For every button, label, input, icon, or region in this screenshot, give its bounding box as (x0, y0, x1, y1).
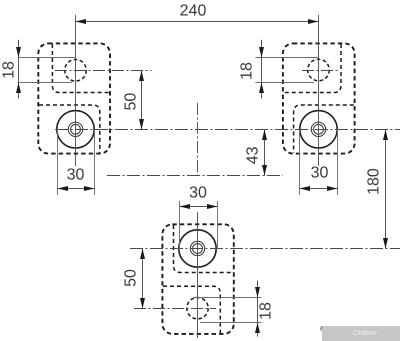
dimension 43: up arrow (262, 130, 267, 141)
bottom mounting hole middle ring (190, 241, 204, 255)
left bracket vertical centerline (75, 15, 77, 166)
dimension 50 top: dimension line (141, 71, 143, 130)
dimension 30 bottom: extension lines (180, 201, 218, 249)
bottom bracket vertical centerline (197, 212, 199, 338)
dimension 18 bottom: bottom arrow (255, 323, 260, 334)
left mounting hole outer circle (57, 111, 94, 148)
right slot hole centerline (302, 70, 339, 72)
bottom slot hole (dashed circle) (187, 298, 208, 319)
watermark logo dot (320, 326, 325, 331)
left slot hole (dashed circle) (65, 60, 87, 82)
bottom mounting hole outer circle (179, 230, 216, 267)
dimension 180: dimension line (385, 130, 387, 249)
dimension 240 right arrow (308, 19, 319, 24)
watermark bar (322, 326, 400, 341)
right console upper inner plate (284, 44, 341, 93)
intermediate horizontal centerline (43 reference) (107, 175, 283, 177)
dimension 18 left: bottom arrow (16, 83, 21, 94)
bottom console lower inner plate (163, 286, 220, 333)
dimension 180: down arrow (383, 238, 388, 249)
svg-text:18: 18 (1, 61, 18, 79)
dimension 18 bottom: top arrow (255, 287, 260, 298)
dimension 30 bottom: right arrow (207, 204, 218, 209)
bottom slot hole centerline (134, 308, 216, 310)
dimension 18 left: top arrow (16, 47, 21, 58)
main horizontal centerline through top mounting holes (55, 129, 400, 131)
dimension 30 bottom: left arrow (180, 204, 191, 209)
dimension 18 left: extension lines (18, 58, 76, 83)
dimension 18 right: dimension line (261, 40, 263, 99)
dimension 18 bottom: extension lines (193, 298, 262, 323)
svg-text:180: 180 (366, 168, 383, 195)
right slot hole (dashed circle) (308, 59, 330, 81)
dimension 30 left: dimension line (58, 188, 95, 190)
dimension 240 line (76, 21, 319, 23)
dimension 18 bottom: dimension line (257, 281, 259, 337)
dimension 30 bottom: dimension line (180, 206, 218, 208)
left slot hole centerline (55, 70, 151, 72)
dimension 180: up arrow (383, 130, 388, 141)
dimension 50 bottom: down arrow (140, 298, 145, 309)
dimension 50 bottom: up arrow (140, 249, 145, 260)
dimension 30 right: dimension line (300, 188, 338, 190)
dimension 18 left: dimension line (18, 40, 20, 99)
svg-text:18: 18 (258, 302, 275, 320)
svg-text:50: 50 (123, 93, 140, 111)
dimension 30 right: left arrow (300, 186, 311, 191)
svg-text:18: 18 (239, 62, 256, 80)
bottom mounting hole inner ring (193, 244, 203, 254)
right bracket vertical centerline (318, 15, 320, 166)
left mounting hole inner ring (71, 124, 81, 134)
vertical symmetry axis between consoles (197, 103, 199, 176)
right mounting hole outer circle (300, 111, 337, 148)
right console lower inner plate (294, 105, 354, 153)
dimension 43: dimension line (264, 130, 266, 176)
dimension 43: down arrow (262, 165, 267, 176)
left console lower inner plate (39, 105, 100, 153)
dimension 18 right: top arrow (259, 47, 264, 58)
dimension 18 right: bottom arrow (259, 83, 264, 94)
bottom horizontal centerline through bottom mounting hole (130, 248, 400, 250)
right mounting hole inner ring (314, 124, 324, 134)
dimension 50 top: down arrow (139, 119, 144, 130)
dimension 18 right: extension lines (255, 58, 318, 83)
right console outline (283, 43, 355, 153)
svg-text:30: 30 (189, 185, 207, 202)
svg-text:30: 30 (311, 165, 329, 182)
svg-text:43: 43 (245, 146, 262, 164)
dimension 50 bottom: dimension line (142, 249, 144, 309)
dimension 30 left: extension lines (58, 130, 95, 195)
svg-text:Onliner: Onliner (353, 328, 378, 337)
dimension 50 top: up arrow (139, 71, 144, 82)
dimension 30 left: right arrow (84, 186, 95, 191)
dimension 30 right: right arrow (327, 186, 338, 191)
bottom console outline (162, 224, 233, 334)
dimension 240 left arrow (76, 19, 87, 24)
svg-text:240: 240 (180, 3, 207, 20)
dimension 30 left: left arrow (58, 186, 69, 191)
svg-text:30: 30 (67, 166, 85, 183)
svg-text:50: 50 (123, 269, 140, 287)
bottom console upper inner plate (174, 225, 234, 273)
left console upper inner plate (52, 44, 109, 93)
right mounting hole middle ring (311, 122, 325, 136)
left mounting hole middle ring (68, 122, 82, 136)
dimension 30 right: extension lines (300, 130, 338, 195)
left console outline (38, 43, 110, 153)
